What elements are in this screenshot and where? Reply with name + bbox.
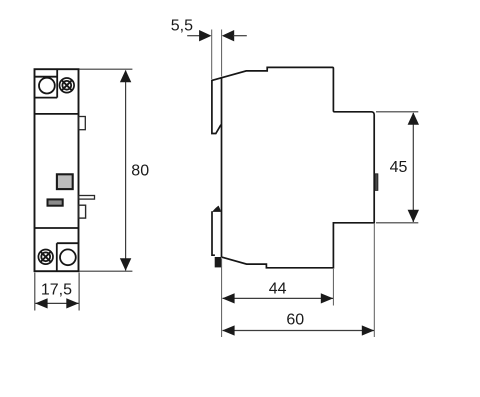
gray indicator square — [57, 174, 73, 189]
dim 80 extension line top — [80, 68, 133, 70]
dim 80 arrow down — [120, 258, 131, 270]
front flange lower face — [212, 211, 215, 255]
svg-text:17,5: 17,5 — [41, 281, 72, 298]
side view left wall — [221, 77, 223, 257]
top terminal box top line — [35, 76, 58, 78]
dim 80 line — [125, 71, 127, 271]
dim 60 arrow right — [362, 325, 374, 335]
right tab lower — [79, 205, 86, 218]
svg-text:80: 80 — [131, 163, 149, 180]
svg-text:60: 60 — [286, 312, 304, 329]
DIN clip lower block (black) — [215, 257, 222, 267]
bottom terminal box top line — [57, 242, 79, 244]
lower section divider — [35, 227, 79, 229]
front view outline — [35, 69, 79, 271]
dim 17,5 line — [35, 302, 78, 304]
front flange upper face — [212, 80, 221, 134]
top screw: inner circle — [62, 81, 71, 90]
upper section divider — [35, 113, 79, 115]
bottom screw: outer circle — [38, 249, 53, 264]
dim 45 extension line bottom — [376, 222, 418, 224]
bottom terminal hole circle — [60, 249, 76, 265]
dim 60 line — [223, 330, 375, 332]
dim 45 line — [412, 113, 414, 222]
dim 5,5 right tail line — [233, 35, 247, 37]
top terminal hole circle — [39, 78, 55, 94]
svg-text:45: 45 — [390, 159, 408, 176]
dim 17,5 arrow left — [35, 298, 47, 308]
top screw: outer circle — [60, 78, 75, 93]
dim 80 arrow up — [120, 70, 131, 82]
dim 45 arrow down — [408, 210, 419, 222]
dim 44 arrow left — [222, 293, 234, 303]
dim 5,5 arrow right (points left) — [222, 30, 234, 41]
svg-text:44: 44 — [269, 280, 287, 297]
bottom screw: cross X — [41, 252, 51, 262]
side view body outline — [212, 67, 374, 267]
top screw: cross X — [62, 80, 72, 90]
dim 44 arrow right — [321, 293, 333, 303]
top terminal box bottom line — [35, 97, 58, 99]
dim 60 extension line right (right face extended) — [373, 224, 375, 337]
right pin middle — [79, 196, 95, 200]
right tab upper — [79, 117, 86, 130]
DIN clip upper hook (black triangle) — [212, 206, 221, 212]
dim 17,5 extension line left — [34, 273, 36, 311]
bottom terminal box left divider — [56, 243, 58, 271]
dim 80 extension line bottom — [80, 270, 133, 272]
dim 44 extension line right — [332, 269, 334, 306]
dim 5,5 extension line right — [221, 30, 223, 77]
top terminal box right divider — [56, 69, 58, 97]
dim 45 extension line top — [376, 111, 418, 113]
dim 17,5 arrow right — [66, 298, 78, 308]
dim 5,5 arrow left (points right) — [199, 30, 211, 41]
dim 60 arrow left — [222, 325, 234, 335]
dim 45 arrow up — [408, 112, 419, 124]
dim 5,5 extension line left — [211, 30, 213, 80]
gray slider rectangle — [48, 199, 63, 205]
svg-text:5,5: 5,5 — [171, 18, 193, 35]
dim 44 extension line left (wall extended) — [221, 259, 223, 338]
dim 5,5 left tail line — [187, 35, 200, 37]
dim 17,5 extension line right — [78, 273, 80, 311]
dim 44 line — [223, 297, 334, 299]
rib on right face — [375, 174, 378, 191]
bottom screw: inner circle — [41, 252, 50, 261]
